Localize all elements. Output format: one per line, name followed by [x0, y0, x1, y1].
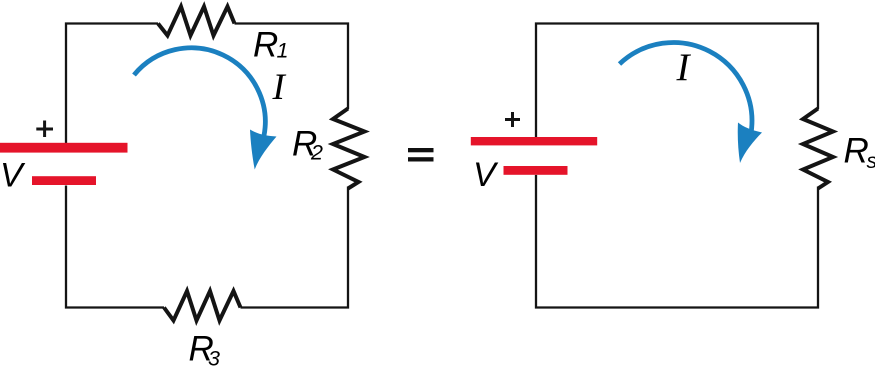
svg-text:R: R: [844, 132, 869, 171]
svg-text:V: V: [473, 156, 499, 194]
svg-text:2: 2: [310, 141, 323, 165]
svg-text:s: s: [867, 149, 875, 173]
svg-text:1: 1: [277, 39, 289, 63]
svg-text:I: I: [676, 46, 692, 89]
svg-text:R: R: [253, 26, 278, 65]
svg-text:V: V: [0, 157, 26, 195]
svg-text:I: I: [272, 67, 287, 108]
svg-text:3: 3: [208, 347, 220, 371]
